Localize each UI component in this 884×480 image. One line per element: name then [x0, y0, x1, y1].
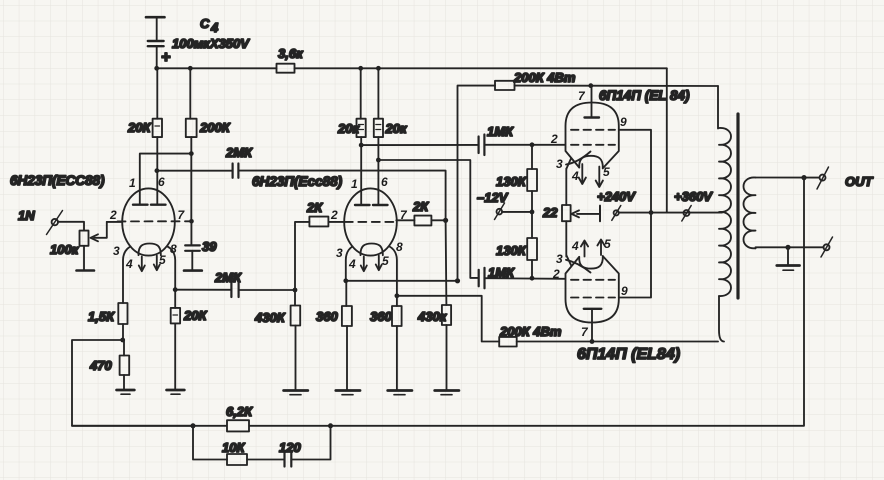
resistor 130K top — [496, 145, 537, 212]
tube U1 screen grid dashed — [571, 129, 615, 131]
svg-text:2МК: 2МК — [225, 145, 253, 160]
label C4 plus — [161, 16, 250, 66]
svg-text:1: 1 — [129, 176, 136, 190]
svg-text:2: 2 — [552, 267, 560, 281]
resistor 2K left — [306, 200, 345, 226]
wire pot wiper to grid2 — [107, 221, 123, 223]
node grid7 junction dot — [189, 219, 194, 224]
tube U2 EL84 bottom envelope — [566, 256, 619, 322]
node 2K right junction — [443, 218, 448, 223]
svg-text:6П14П (EL84): 6П14П (EL84) — [577, 346, 680, 363]
resistor 3,6k — [277, 46, 305, 73]
wire vertical A 200K top feed — [458, 86, 496, 281]
node feedback tap — [801, 175, 806, 180]
wire cathode3 to vertical A — [346, 280, 458, 282]
node feedback right — [328, 423, 333, 428]
resistor 360 right — [370, 296, 402, 390]
svg-text:4: 4 — [348, 257, 356, 271]
tube V1 6N23P envelope — [122, 188, 175, 255]
svg-text:2: 2 — [550, 132, 558, 146]
svg-text:430К: 430К — [254, 310, 286, 325]
svg-text:1N: 1N — [18, 208, 35, 223]
svg-text:5: 5 — [604, 237, 611, 251]
tube U1 heater arrows — [579, 164, 603, 187]
svg-text:20К: 20К — [183, 308, 207, 323]
node 430K top — [293, 288, 298, 293]
svg-text:3: 3 — [556, 157, 563, 171]
svg-text:22: 22 — [542, 205, 558, 220]
svg-text:2: 2 — [330, 208, 338, 222]
wire 1MK bottom to grid2 EL84 bottom — [485, 277, 566, 280]
svg-text:200К: 200К — [199, 120, 231, 135]
svg-text:8: 8 — [396, 240, 403, 254]
tube U1 anode — [585, 86, 600, 118]
resistor 430k right — [417, 220, 451, 389]
potentiometer 22 — [542, 205, 600, 221]
svg-text:4: 4 — [210, 20, 219, 35]
tube U2 pin labels — [552, 237, 628, 339]
wire pot top to cathode top tube — [565, 169, 567, 206]
svg-text:OUT: OUT — [845, 174, 874, 189]
svg-text:6П14П (EL 84): 6П14П (EL 84) — [599, 88, 690, 103]
svg-text:C: C — [200, 16, 210, 31]
svg-text:430к: 430к — [417, 309, 448, 324]
tube V2 pin labels — [330, 175, 408, 271]
wire plate1 to 1MK top — [361, 144, 478, 146]
node screens junction — [649, 210, 654, 215]
svg-text:6: 6 — [158, 175, 165, 189]
svg-text:9: 9 — [620, 115, 627, 129]
capacitor 120 — [279, 440, 301, 467]
wire cathode pin3 top tube — [566, 159, 571, 169]
svg-text:1,5К: 1,5К — [88, 309, 115, 324]
svg-text:100к: 100к — [50, 242, 80, 257]
svg-text:1: 1 — [351, 177, 358, 191]
capacitor 2MK coupling 2 — [214, 270, 242, 297]
wire plate6 to 1MK bottom — [378, 160, 478, 278]
tube U2 heater arrows — [581, 240, 605, 257]
terminal OUT top — [817, 167, 829, 189]
svg-text:2: 2 — [109, 208, 117, 222]
resistor 20k right pair — [374, 68, 408, 204]
svg-text:20к: 20к — [337, 121, 360, 136]
wire +240V to transformer — [619, 212, 722, 214]
resistor 20K cathode V1 — [168, 247, 208, 390]
svg-text:+360V: +360V — [674, 189, 713, 204]
svg-text:5: 5 — [159, 253, 166, 267]
svg-text:5: 5 — [382, 254, 389, 268]
svg-text:2К: 2К — [412, 199, 429, 214]
svg-text:200К 4Вт: 200К 4Вт — [499, 324, 562, 339]
wire 2MK to grid7 of V2 — [238, 171, 445, 221]
svg-text:2К: 2К — [306, 200, 323, 215]
svg-text:130К: 130К — [496, 243, 527, 258]
wire secondary bottom to OUT — [756, 247, 824, 248]
tube U1 pin labels — [550, 89, 627, 183]
svg-text:6Н23П(ЕСС88): 6Н23П(ЕСС88) — [10, 173, 105, 188]
ground 20K — [167, 390, 185, 394]
connector +360V — [674, 189, 713, 221]
node secondary ground tap — [785, 245, 790, 250]
node cathode8 junction — [173, 287, 178, 292]
ground 430K — [284, 391, 308, 395]
svg-text:20к: 20к — [385, 121, 408, 136]
svg-text:9: 9 — [621, 284, 628, 298]
potentiometer 100k — [50, 222, 107, 271]
tube U2 heater loop — [579, 256, 603, 269]
tube V1 pin labels — [109, 175, 186, 271]
node 130K top junction — [530, 142, 535, 147]
terminal OUT bottom — [821, 237, 833, 257]
resistor 430K left — [254, 290, 300, 390]
capacitor C4 — [148, 41, 164, 68]
wire cathode pin3 bottom tube — [566, 255, 571, 265]
transformer secondary winding — [744, 177, 756, 248]
svg-text:3: 3 — [556, 252, 563, 266]
node plate6 V2 — [376, 158, 381, 163]
svg-text:+: + — [161, 49, 170, 66]
svg-text:4: 4 — [125, 257, 133, 271]
node plate6 junction — [155, 168, 160, 173]
ground secondary — [777, 247, 800, 270]
resistor 20K (V1 plate) — [127, 68, 162, 204]
node -12V junction — [530, 210, 535, 215]
svg-text:4: 4 — [571, 239, 579, 253]
svg-text:360: 360 — [370, 309, 392, 324]
wire cathode8 to 200K bottom feed — [397, 296, 499, 342]
svg-text:3,6к: 3,6к — [278, 46, 304, 61]
svg-text:20К: 20К — [127, 120, 151, 135]
capacitor 39 — [184, 221, 217, 270]
svg-text:130К: 130К — [496, 174, 527, 189]
ground 470 — [117, 390, 135, 394]
svg-text:5: 5 — [603, 165, 610, 179]
node plate7 bottom — [590, 339, 595, 344]
wire feedback left — [72, 340, 193, 426]
node feedback left — [191, 423, 196, 428]
tube V2 6N23P envelope — [344, 188, 397, 255]
capacitor 1MK bottom — [479, 265, 515, 288]
ground 430k right — [435, 391, 459, 395]
connector -12V — [477, 190, 532, 220]
wire feedback loop — [72, 178, 804, 426]
resistor 200K — [186, 68, 231, 221]
ground 360 right — [388, 391, 412, 395]
wire input to pot — [58, 222, 84, 231]
wire 2MK2 to 430K node — [239, 289, 295, 291]
node plate1 V2 — [359, 143, 364, 148]
chassis ground top — [146, 17, 165, 39]
tube V2 heater arrows 4 5 — [361, 256, 382, 272]
tube V2 anode plates — [355, 204, 388, 206]
svg-text:470: 470 — [89, 358, 112, 373]
wire cathode8 to 2MK2 — [175, 289, 231, 291]
wire RC branch — [193, 426, 331, 460]
wire plate1 link — [140, 154, 192, 204]
tube U2 screen grid dashed — [571, 297, 615, 299]
tube V1 anode plates — [133, 203, 166, 205]
wire plate6 to 2MK — [157, 170, 233, 172]
capacitor 2MK coupling 1 — [225, 145, 253, 178]
svg-text:10К: 10К — [222, 440, 245, 455]
svg-text:2МК: 2МК — [214, 270, 242, 285]
svg-text:200К 4Вт: 200К 4Вт — [513, 70, 576, 85]
wire B+ down — [666, 68, 668, 212]
svg-text:3: 3 — [113, 244, 120, 258]
resistor 6,2K — [226, 404, 253, 431]
wire pot bottom to cathode bottom tube — [565, 221, 567, 256]
ground 360 left — [336, 391, 360, 395]
tube V1 heater arrows 4 5 — [139, 256, 160, 272]
wire B+ bus — [157, 67, 667, 69]
resistor 200K 4W top — [495, 70, 718, 90]
capacitor 1MK top — [479, 124, 514, 155]
svg-text:1МК: 1МК — [487, 124, 514, 139]
svg-text:3: 3 — [336, 246, 343, 260]
tube U2 control grid dashed — [571, 279, 615, 281]
svg-text:4: 4 — [571, 169, 579, 183]
wire screen pin9 link — [619, 130, 651, 298]
resistor 130K bottom — [496, 212, 537, 278]
svg-text:6: 6 — [381, 175, 388, 189]
wire cathode3 V2 — [346, 247, 353, 281]
wire riser to 2K left — [295, 222, 309, 290]
tube U1 control grid dashed — [571, 144, 615, 146]
tube V1 grid dashed — [118, 220, 192, 222]
node plate7 top — [588, 83, 593, 88]
wire secondary top to OUT — [756, 177, 820, 179]
tube U2 anode — [584, 309, 602, 342]
node vertical A junction — [455, 278, 460, 283]
tube V2 grid dashed — [345, 221, 397, 223]
transformer primary winding — [718, 86, 724, 342]
svg-text:120: 120 — [279, 440, 301, 455]
resistor 20k left pair — [337, 68, 366, 204]
tube U1 EL84 top envelope — [566, 103, 619, 169]
wire 1MK top to grid2 EL84 top — [484, 144, 565, 146]
resistor 470 — [89, 340, 129, 389]
transformer core — [736, 114, 739, 298]
svg-text:+240V: +240V — [597, 189, 636, 204]
resistor 2K right — [396, 199, 445, 225]
svg-text:6,2К: 6,2К — [226, 404, 253, 419]
wire cathode8 V2 — [390, 247, 397, 296]
tube U1 heater loop — [579, 156, 603, 169]
resistor 10K — [222, 440, 247, 465]
node 130K bottom junction — [530, 276, 535, 281]
node cathode3 junction — [343, 278, 348, 283]
tube U2 cathode arc — [566, 260, 591, 273]
svg-text:360: 360 — [316, 309, 338, 324]
tube U1 cathode arc — [566, 152, 591, 165]
node cathode junction — [120, 338, 125, 343]
svg-text:100мкX350V: 100мкX350V — [172, 36, 250, 51]
svg-text:6Н23П(Есс88): 6Н23П(Есс88) — [252, 174, 343, 189]
node bus junctions — [154, 66, 380, 71]
connector +240V — [597, 189, 636, 220]
input connector — [47, 211, 63, 235]
resistor 360 left — [316, 281, 352, 390]
svg-text:39: 39 — [202, 239, 217, 254]
resistor 200K 4W bottom — [499, 324, 718, 347]
node 200K junction — [189, 151, 194, 156]
node cathode8 junction — [395, 293, 400, 298]
resistor 1,5K — [88, 247, 131, 341]
